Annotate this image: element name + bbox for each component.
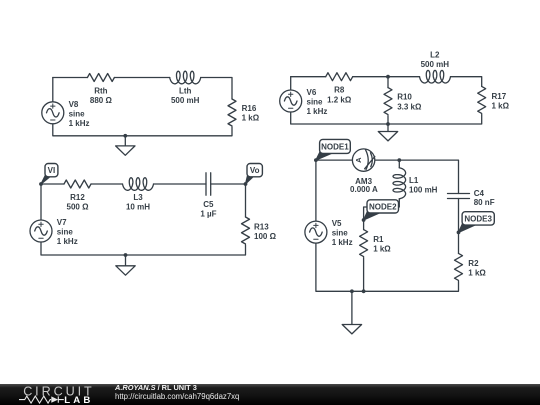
svg-text:VI: VI — [48, 166, 56, 175]
svg-text:R16: R16 — [242, 104, 257, 113]
svg-text:sine: sine — [69, 109, 86, 118]
svg-text:500 Ω: 500 Ω — [67, 203, 90, 212]
svg-text:V5: V5 — [332, 219, 342, 228]
svg-text:0.000 A: 0.000 A — [350, 185, 378, 194]
svg-text:3.3 kΩ: 3.3 kΩ — [397, 102, 422, 111]
svg-text:Lth: Lth — [179, 87, 192, 96]
svg-text:L2: L2 — [430, 50, 440, 59]
svg-text:1 kΩ: 1 kΩ — [492, 102, 510, 111]
svg-text:NODE1: NODE1 — [321, 142, 349, 151]
svg-text:100 mH: 100 mH — [409, 186, 438, 195]
svg-text:V7: V7 — [57, 218, 67, 227]
svg-text:R10: R10 — [397, 93, 412, 102]
svg-text:100 Ω: 100 Ω — [254, 232, 277, 241]
svg-text:C4: C4 — [474, 189, 485, 198]
svg-text:500 mH: 500 mH — [421, 60, 450, 69]
svg-text:LAB: LAB — [64, 395, 93, 405]
svg-text:1 kHz: 1 kHz — [307, 107, 328, 116]
svg-text:1 kΩ: 1 kΩ — [373, 245, 391, 254]
svg-text:R12: R12 — [70, 193, 85, 202]
svg-text:Rth: Rth — [94, 87, 107, 96]
svg-text:1 kHz: 1 kHz — [69, 119, 90, 128]
svg-text:1.2 kΩ: 1.2 kΩ — [327, 95, 352, 104]
svg-text:V6: V6 — [307, 88, 317, 97]
svg-text:1 kHz: 1 kHz — [332, 238, 353, 247]
svg-text:L3: L3 — [133, 193, 143, 202]
svg-text:1 kΩ: 1 kΩ — [242, 114, 260, 123]
svg-text:NODE2: NODE2 — [369, 202, 397, 211]
svg-text:V8: V8 — [69, 100, 79, 109]
svg-text:C5: C5 — [203, 200, 214, 209]
svg-text:R2: R2 — [468, 259, 479, 268]
svg-text:880 Ω: 880 Ω — [90, 96, 113, 105]
svg-text:Vo: Vo — [250, 166, 260, 175]
svg-text:1 kΩ: 1 kΩ — [468, 268, 486, 277]
svg-text:sine: sine — [57, 228, 74, 237]
svg-text:R8: R8 — [334, 86, 345, 95]
svg-text:sine: sine — [332, 229, 349, 238]
svg-text:1 µF: 1 µF — [200, 210, 216, 219]
svg-text:R17: R17 — [492, 92, 507, 101]
svg-text:sine: sine — [307, 98, 324, 107]
svg-text:R13: R13 — [254, 223, 269, 232]
svg-text:R1: R1 — [373, 235, 384, 244]
svg-text:NODE3: NODE3 — [464, 214, 492, 223]
svg-text:1 kHz: 1 kHz — [57, 237, 78, 246]
svg-text:80 nF: 80 nF — [474, 198, 495, 207]
svg-text:L1: L1 — [409, 176, 419, 185]
svg-text:A: A — [354, 157, 363, 163]
svg-text:500 mH: 500 mH — [171, 96, 200, 105]
svg-text:10 mH: 10 mH — [126, 203, 150, 212]
